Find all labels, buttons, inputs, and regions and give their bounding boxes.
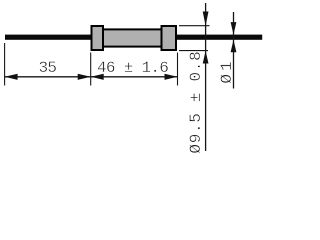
svg-text:Ø9.5 ± 0.8: Ø9.5 ± 0.8	[187, 51, 205, 154]
svg-text:Ø1: Ø1	[218, 58, 236, 83]
svg-text:35: 35	[39, 59, 57, 77]
svg-text:46 ± 1.6: 46 ± 1.6	[97, 59, 168, 77]
